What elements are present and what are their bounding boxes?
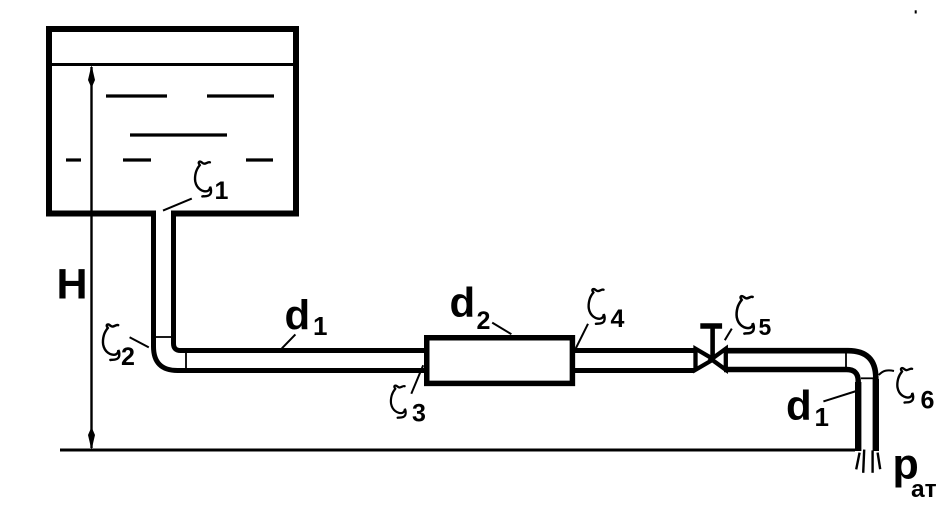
svg-text:3: 3 <box>412 400 426 428</box>
outlet pipe right wall thickening <box>873 379 879 451</box>
pipe from tank: inner wall (right) + inner elbow + top wall of run 1 <box>174 211 433 351</box>
valve V1 right seat triangle <box>711 349 726 370</box>
pipe from tank: outer wall (left) + elbow + bottom wall of run 1 <box>154 211 433 371</box>
outlet jet line 4 <box>878 453 881 470</box>
svg-text:1: 1 <box>215 177 229 205</box>
arrowhead up <box>88 65 95 88</box>
leader line zeta5 <box>725 329 732 341</box>
svg-text:2: 2 <box>121 343 135 371</box>
outlet pipe left wall thickening <box>855 382 861 451</box>
elbow E2 joint tick on vertical pipe <box>861 377 873 379</box>
water dash 6 <box>246 158 273 161</box>
ground line <box>60 449 855 452</box>
expansion chamber d2 <box>427 338 573 384</box>
svg-text:ат: ат <box>911 476 937 503</box>
svg-text:1: 1 <box>313 311 327 341</box>
leader line zeta3 <box>411 365 423 394</box>
leader line zeta2 <box>130 337 149 347</box>
label zeta3 <box>391 386 406 418</box>
svg-text:2: 2 <box>477 307 491 335</box>
outlet jet line 2 <box>863 450 864 473</box>
pipe run 3 top wall + right elbow outer + outlet right wall <box>724 351 876 451</box>
tank bottom right segment <box>171 211 299 217</box>
tank bottom left segment <box>46 211 156 217</box>
pipe run 2 top wall <box>570 348 694 353</box>
label zeta4 <box>589 289 605 324</box>
label zeta1 <box>195 162 211 197</box>
water surface line <box>52 63 293 66</box>
leader line d1 (outlet) <box>823 391 856 401</box>
svg-text:4: 4 <box>611 305 625 333</box>
elbow E2 joint tick on horizontal pipe <box>845 353 847 367</box>
leader line zeta4 <box>572 324 588 357</box>
outlet jet line 1 <box>856 453 859 470</box>
label zeta2 <box>103 324 119 360</box>
svg-text:H: H <box>57 260 88 308</box>
elbow E1 joint tick on horizontal pipe <box>185 353 187 368</box>
water dash 5 <box>123 158 151 161</box>
svg-text:6: 6 <box>921 387 935 415</box>
leader line d1 (run 1) <box>282 334 296 348</box>
pipe run 2 bottom wall <box>570 368 694 373</box>
water dash 1 <box>106 94 167 97</box>
tank T1 walls (left, top, right) <box>49 29 296 217</box>
water dash 2 <box>207 94 274 97</box>
stray dot top right <box>915 10 917 13</box>
valve stem <box>710 326 715 358</box>
pipe run 3 bottom wall + right elbow inner + outlet left wall <box>724 370 858 452</box>
leader line zeta1 <box>163 199 192 211</box>
outlet jet line 3 <box>871 450 873 472</box>
valve V1 left seat triangle <box>696 349 714 370</box>
svg-text:d: d <box>786 382 812 429</box>
svg-text:d: d <box>450 279 476 326</box>
svg-text:5: 5 <box>759 314 772 340</box>
leader line zeta6 <box>879 370 894 375</box>
svg-text:1: 1 <box>815 402 829 432</box>
water dash 4 <box>66 158 81 161</box>
dimension line H <box>90 67 92 448</box>
arrowhead down <box>88 427 95 450</box>
water dash 3 <box>130 133 227 136</box>
valve handle <box>700 323 722 329</box>
label zeta6 <box>897 368 913 402</box>
elbow E1 joint tick on vertical pipe <box>156 336 171 338</box>
svg-text:d: d <box>285 291 311 338</box>
label zeta5 <box>737 296 754 333</box>
leader line d2 <box>492 323 511 335</box>
